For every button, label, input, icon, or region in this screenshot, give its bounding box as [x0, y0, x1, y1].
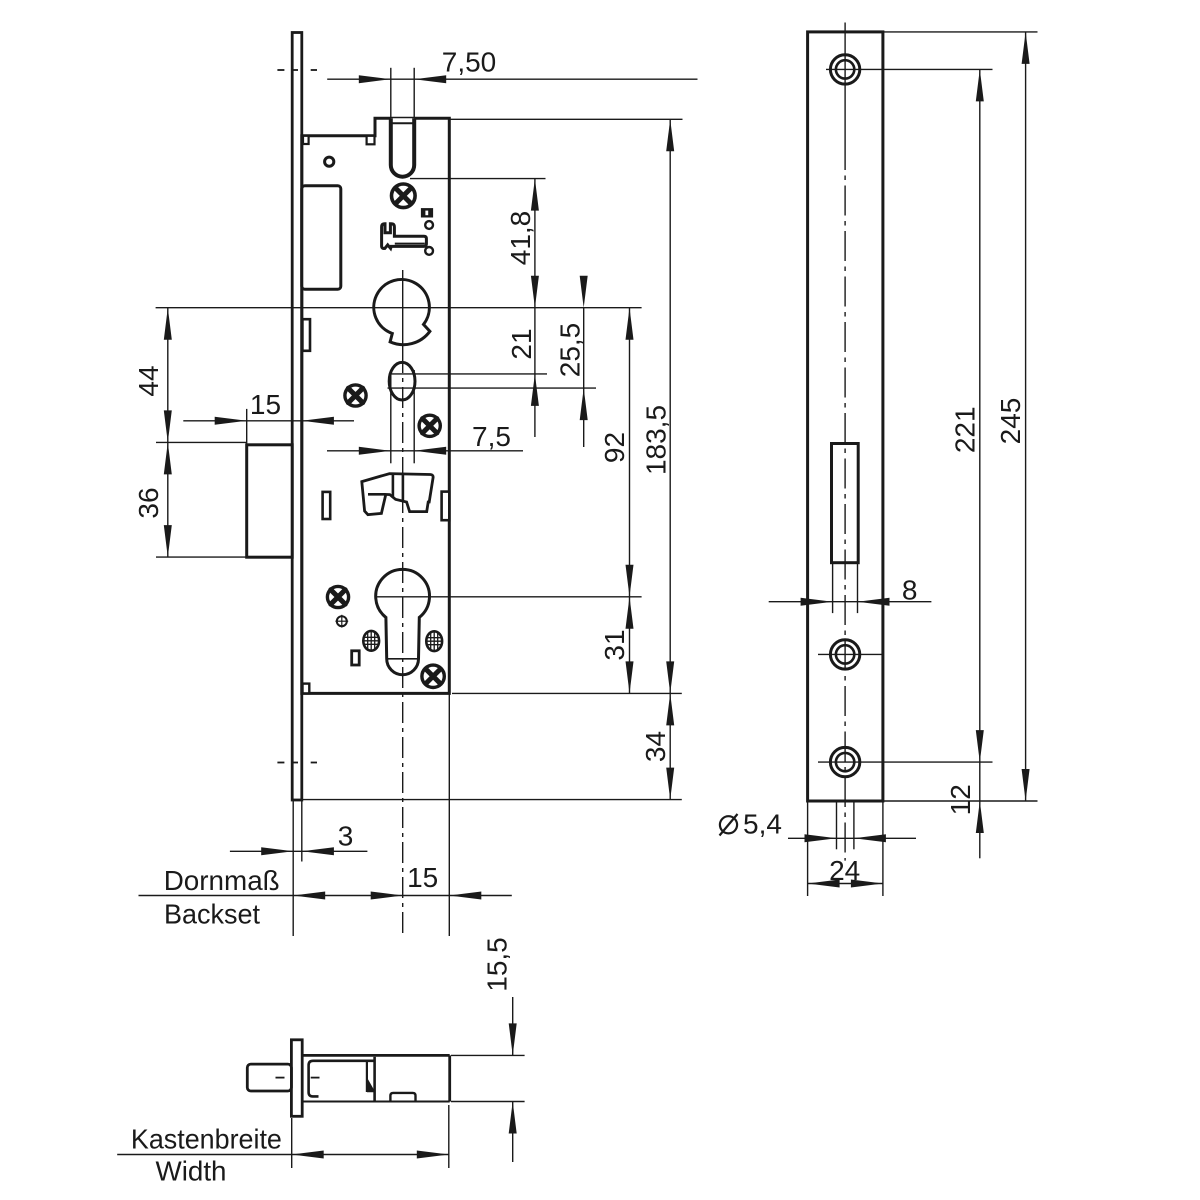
- svg-text:36: 36: [133, 487, 164, 518]
- svg-text:44: 44: [133, 365, 164, 396]
- svg-text:245: 245: [995, 398, 1026, 445]
- svg-text:24: 24: [829, 855, 860, 886]
- svg-text:12: 12: [945, 784, 976, 815]
- svg-text:25,5: 25,5: [555, 323, 586, 378]
- svg-text:Backset: Backset: [164, 899, 260, 930]
- svg-text:Kastenbreite: Kastenbreite: [131, 1124, 282, 1155]
- svg-text:8: 8: [902, 574, 918, 605]
- svg-text:15,5: 15,5: [482, 937, 513, 992]
- svg-text:21: 21: [506, 328, 537, 359]
- svg-text:183,5: 183,5: [641, 405, 672, 475]
- svg-text:Dornmaß: Dornmaß: [164, 865, 280, 896]
- svg-text:3: 3: [338, 820, 354, 851]
- svg-text:5,4: 5,4: [743, 809, 782, 840]
- svg-text:92: 92: [599, 432, 630, 463]
- svg-text:15: 15: [407, 862, 438, 893]
- svg-text:34: 34: [640, 731, 671, 762]
- svg-text:15: 15: [250, 389, 281, 420]
- svg-text:Width: Width: [156, 1156, 227, 1187]
- svg-text:31: 31: [599, 629, 630, 660]
- svg-text:221: 221: [950, 406, 981, 453]
- svg-text:7,50: 7,50: [442, 47, 497, 78]
- svg-text:7,5: 7,5: [472, 421, 511, 452]
- svg-text:41,8: 41,8: [505, 211, 536, 266]
